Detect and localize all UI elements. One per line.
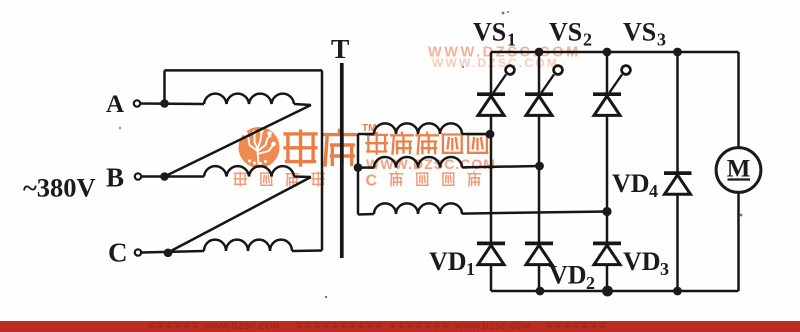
diode VD3 [593,243,621,264]
watermark slogan 全球最大IC采购网站 [234,172,480,190]
junction dot top bus VD4 [673,48,682,57]
transformer T core [340,63,344,258]
wire leg3 middle [606,115,609,243]
wire leg3 anode [606,52,609,94]
svg-text:VD: VD [612,169,650,198]
wire leg2 middle [538,115,541,243]
svg-text:VD: VD [549,261,587,290]
wire leg1 middle [490,115,493,243]
wire node A riser [163,70,166,103]
svg-text:VS: VS [623,18,656,47]
svg-text:C: C [108,238,128,268]
wire L2 end stub [294,175,311,178]
junction dot top bus leg2 [535,48,544,57]
wire leg1 anode [490,52,493,94]
diode VD1 [477,243,505,264]
junction dot leg2 secondary tap [535,162,544,171]
diode VD2 [525,243,553,264]
junction dot node B [160,172,169,181]
winding L5 (secondary phase b) [374,157,462,168]
svg-text:~380V: ~380V [23,173,96,203]
wire zigzag L2 end to node C [168,177,311,253]
wire motor top lead [737,52,740,148]
diode VD4 [664,173,692,194]
winding L4 (secondary phase a) [374,123,462,134]
wire C terminal to winding [142,251,205,253]
junction dot leg1 secondary tap [486,130,495,139]
winding L6 (secondary phase c) [374,203,462,214]
wire VD4 bottom [676,194,679,291]
wire B terminal to winding [142,175,205,178]
wire star to winding L6 [358,213,374,216]
winding L3 (phase C primary) [204,240,292,251]
wire L5 to leg 2 [462,166,539,167]
svg-text:3: 3 [657,30,666,50]
wire leg2 bottom [538,265,541,291]
wire star to winding L4 [358,133,374,136]
watermark logo disc [239,127,280,168]
wire top bus [491,51,739,54]
wire A terminal to winding [141,102,205,105]
svg-text:C: C [366,173,378,190]
svg-text:VS: VS [549,18,582,47]
terminal B circle [135,173,141,179]
wire top link A to right [165,69,323,72]
winding L2 (phase B primary) [204,166,294,176]
wire link to winding L3 end [292,249,322,252]
wire secondary star point vertical [357,134,360,215]
junction dot node A [160,99,169,108]
junction dot secondary star point [354,163,363,172]
junction dot leg3 secondary tap [602,207,611,216]
scan speckles [119,11,742,298]
wire L1 end stub [294,104,311,105]
winding L1 (phase A primary) [204,94,294,104]
thyristor VS1 [477,66,514,116]
svg-text:VS: VS [473,18,506,47]
svg-text:1: 1 [507,30,516,50]
svg-text:WWW.DZSC.COM: WWW.DZSC.COM [455,321,531,331]
svg-text:4: 4 [649,181,658,201]
terminal C circle [135,249,141,255]
wire VD4 top [676,52,679,173]
wire bottom bus [491,290,739,293]
wire motor bottom lead [737,193,740,292]
svg-text:WWW.DZSC.COM: WWW.DZSC.COM [204,321,280,331]
terminal A circle [134,100,140,106]
svg-text:T: T [331,33,349,64]
thyristor VS3 [593,66,630,116]
junction dot node C [164,249,173,258]
svg-text:3: 3 [660,259,669,279]
svg-text:2: 2 [586,273,595,293]
wire star to winding L5 [358,166,374,169]
svg-text:B: B [106,163,124,193]
junction dot bottom bus VD4 [673,287,682,296]
junction dot bottom bus leg2 [536,287,545,296]
svg-text:A: A [106,91,124,118]
svg-text:VD: VD [623,247,661,276]
svg-text:2: 2 [583,30,592,50]
wire right link vertical [321,70,324,250]
watermark main text 维库 [285,131,356,166]
wire L4 to leg 1 [462,133,491,136]
svg-text:1: 1 [466,259,475,279]
svg-text:VD: VD [429,247,467,276]
motor M1 [716,148,761,193]
watermark text 电子市场网 [366,133,487,154]
junction dot bottom bus leg3 [602,286,613,297]
junction dot top bus leg3 [603,48,612,57]
wire L6 to leg 3 [462,212,607,214]
wire leg2 anode [538,52,541,94]
thyristor VS2 [525,66,562,116]
watermark footer bar [0,321,800,332]
wire zigzag L1 end to node B [165,105,312,177]
wire leg1 bottom [490,265,493,291]
wire leg3 bottom [606,265,609,291]
